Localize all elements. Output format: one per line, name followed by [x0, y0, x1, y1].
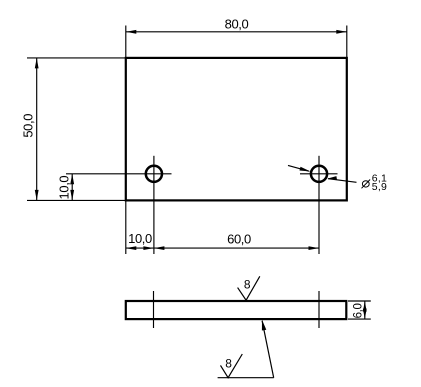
svg-text:60,0: 60,0: [227, 231, 251, 246]
svg-text:10,0: 10,0: [128, 231, 152, 246]
svg-text:6,0: 6,0: [353, 304, 365, 319]
svg-text:50,0: 50,0: [20, 114, 35, 138]
svg-text:80,0: 80,0: [225, 16, 249, 31]
svg-text:8: 8: [225, 356, 232, 370]
svg-text:5,9: 5,9: [372, 181, 388, 193]
svg-text:10,0: 10,0: [57, 176, 72, 200]
svg-text:8: 8: [244, 278, 251, 292]
